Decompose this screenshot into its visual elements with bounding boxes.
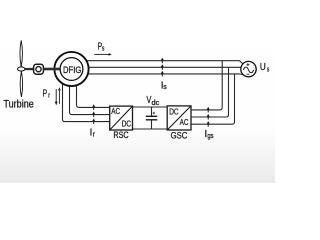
svg-text:GSC: GSC xyxy=(171,130,188,140)
svg-text:DC: DC xyxy=(122,119,131,128)
svg-text:U: U xyxy=(260,62,266,73)
svg-text:s: s xyxy=(102,46,105,53)
svg-text:s: s xyxy=(163,84,167,91)
svg-text:AC: AC xyxy=(111,107,120,116)
svg-text:DC: DC xyxy=(169,108,178,117)
svg-text:dc: dc xyxy=(152,100,160,107)
svg-text:s: s xyxy=(267,67,270,74)
svg-text:RSC: RSC xyxy=(113,130,128,140)
svg-text:DFIG: DFIG xyxy=(63,65,81,75)
svg-text:Turbine: Turbine xyxy=(3,99,33,111)
svg-text:gs: gs xyxy=(207,133,214,140)
svg-text:AC: AC xyxy=(180,118,189,127)
svg-text:P: P xyxy=(43,89,48,100)
